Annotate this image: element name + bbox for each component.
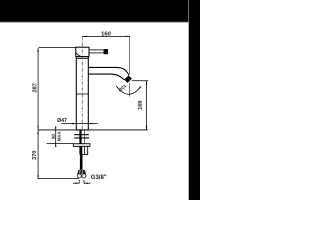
threaded stud mid (79, 146, 81, 154)
fitting ball left (77, 174, 81, 178)
svg-text:370: 370 (32, 151, 38, 160)
threaded stud upper (79, 130, 81, 144)
mounting nut (82, 146, 88, 154)
swivel arc (116, 86, 141, 94)
small dim arrows G3/8 (73, 182, 79, 184)
svg-text:160: 160 (101, 31, 111, 37)
right black bar (189, 0, 200, 200)
svg-text:50: 50 (51, 134, 56, 139)
lever knob (104, 49, 109, 54)
ext line 50max bottom (47, 143, 74, 145)
right bar soft edge (187, 0, 190, 200)
joint line under head (76, 57, 88, 59)
top bar soft edge (0, 21, 200, 24)
joint line mid body (76, 93, 88, 95)
horseshoe washer bar 1 (74, 134, 89, 135)
swivel arc tick left (116, 86, 118, 89)
washer plate (73, 144, 90, 147)
faucet centerline (81, 36, 83, 129)
top black bar (0, 0, 200, 22)
aerator band (124, 76, 132, 84)
ext line hose end (38, 178, 79, 180)
dim 50 MAX (55, 126, 57, 146)
horseshoe washer bar 2 (74, 137, 89, 138)
arrows at deck (37, 126, 38, 130)
spout inner line (88, 74, 124, 80)
head cap (cartridge housing) (76, 47, 89, 57)
svg-text:169: 169 (138, 101, 144, 110)
deck line (38, 129, 148, 131)
hose below nut (80, 155, 83, 170)
ext ticks below fitting (78, 180, 80, 184)
svg-text:287: 287 (32, 83, 38, 92)
arrow top 287 (37, 48, 38, 52)
dim 287/370 vertical line (37, 48, 39, 180)
spout outer line (88, 67, 129, 75)
svg-text:Ø47: Ø47 (57, 118, 67, 124)
shank right line (83, 130, 85, 144)
svg-text:G3/8″: G3/8″ (91, 175, 107, 181)
nut facet line (84, 146, 86, 154)
arrow bottom 370 (37, 175, 38, 179)
ext line faucet top (39, 47, 76, 49)
lever stick (89, 50, 104, 53)
svg-text:MAX: MAX (57, 131, 62, 141)
fitting hatch (79, 170, 82, 174)
aerator centerline (129, 36, 131, 75)
hose fitting cone (77, 170, 86, 174)
arrow left of 160 (82, 36, 86, 37)
ext line spout outlet (132, 80, 148, 82)
fitting ball right (82, 174, 86, 178)
arrow right of 160 (126, 36, 130, 37)
dim 169 (146, 81, 148, 130)
dim 160 line (82, 35, 129, 37)
swivel arc tick right (139, 86, 141, 88)
lever hinge curve (76, 53, 82, 57)
body (76, 57, 88, 130)
dim O47 (62, 123, 98, 125)
